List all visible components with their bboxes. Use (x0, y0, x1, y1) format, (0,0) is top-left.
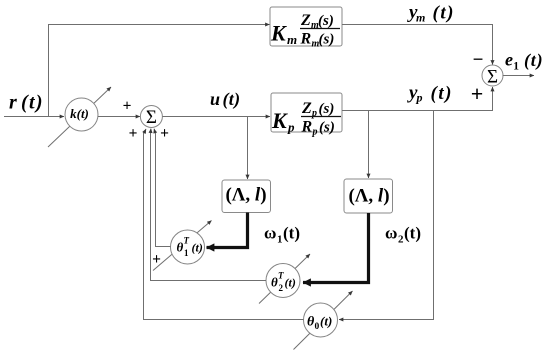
svg-text:(s): (s) (318, 13, 334, 29)
svg-text:(Λ, l): (Λ, l) (225, 185, 266, 206)
svg-text:(t): (t) (223, 89, 241, 110)
wire: u branch down to filter 1 (247, 117, 249, 180)
svg-text:Z: Z (300, 12, 311, 29)
svg-text:R: R (301, 119, 313, 136)
svg-text:(s): (s) (319, 120, 335, 136)
gain block k(t) (65, 98, 98, 131)
thick wire: omega2 from filter2 to theta2 (303, 213, 369, 283)
svg-text:(t): (t) (404, 224, 421, 243)
svg-text:(t): (t) (285, 276, 296, 290)
svg-text:Σ: Σ (146, 107, 157, 128)
svg-text:−: − (473, 50, 484, 71)
wire: top line to Km (48, 24, 270, 26)
svg-text:0: 0 (315, 322, 320, 332)
svg-text:+: + (129, 125, 138, 142)
node A: branch on r line going up (48, 24, 50, 117)
svg-text:R: R (300, 31, 312, 48)
svg-text:+: + (123, 98, 132, 115)
svg-text:+: + (160, 125, 169, 142)
svg-text:(t): (t) (21, 92, 44, 114)
block Kp plant (271, 93, 342, 138)
svg-text:T: T (184, 236, 190, 246)
svg-text:e: e (505, 50, 513, 70)
svg-text:(s): (s) (319, 32, 335, 48)
svg-text:p: p (287, 120, 295, 135)
svg-text:θ: θ (177, 240, 184, 255)
svg-text:r: r (9, 92, 17, 114)
svg-text:Z: Z (301, 100, 312, 117)
svg-text:1: 1 (513, 61, 519, 73)
wire: yp branch down to theta0 (339, 111, 434, 320)
summing junction S2 (e1) (482, 65, 503, 86)
svg-text:K: K (270, 21, 287, 46)
svg-text:2: 2 (279, 283, 284, 293)
wire: theta2 output to summer (151, 132, 267, 281)
svg-text:(t): (t) (524, 50, 543, 71)
theta2 gain diagonal arrow (259, 254, 310, 304)
gain block theta0(t) (304, 303, 338, 337)
wire: r(t) input to k(t) (4, 116, 64, 118)
filter block 1 (Lambda, l) (222, 180, 271, 213)
block Km reference model (270, 7, 342, 50)
theta0 gain diagonal arrow (294, 291, 353, 350)
wire: Km output to e summer (ym) (342, 25, 493, 65)
gain k(t) diagonal arrow (48, 87, 111, 147)
wire: yp branch down to filter 2 (368, 111, 370, 179)
svg-text:1: 1 (184, 248, 189, 258)
svg-text:u: u (210, 89, 220, 109)
svg-text:+: + (152, 251, 161, 268)
svg-text:ω: ω (385, 224, 397, 243)
svg-text:m: m (287, 32, 297, 47)
svg-text:T: T (278, 271, 284, 281)
svg-text:(s): (s) (319, 101, 335, 117)
svg-text:ω: ω (264, 224, 276, 243)
svg-text:p: p (311, 108, 317, 119)
gain block theta1T(t) (171, 230, 205, 264)
filter block 2 (Lambda, l) (344, 179, 393, 213)
svg-text:(t): (t) (320, 314, 332, 329)
svg-text:m: m (416, 11, 425, 25)
svg-text:p: p (312, 127, 318, 138)
svg-text:1: 1 (277, 234, 283, 246)
svg-text:(t): (t) (283, 224, 300, 243)
wire: k(t) to summer (98, 116, 140, 118)
svg-text:p: p (416, 91, 423, 105)
wire: summer to Kp plant (163, 116, 271, 118)
wire: e1 output (503, 75, 535, 77)
summing junction S1 (140, 106, 162, 128)
wire: Kp output yp to e summer (342, 87, 493, 111)
svg-text:K: K (271, 108, 288, 133)
svg-text:θ: θ (271, 275, 278, 290)
svg-text:(t): (t) (433, 3, 455, 24)
svg-text:k(t): k(t) (70, 106, 89, 121)
svg-text:+: + (471, 81, 484, 106)
svg-text:Σ: Σ (487, 67, 498, 88)
svg-text:(t): (t) (192, 241, 203, 255)
theta1 gain diagonal arrow (153, 221, 212, 271)
svg-text:(t): (t) (431, 83, 453, 104)
wire: theta1 output to summer (156, 132, 171, 247)
svg-text:(Λ, l): (Λ, l) (348, 186, 389, 207)
wire: theta0 output to summer (144, 132, 304, 320)
gain block theta2T(t) (266, 264, 300, 298)
thick wire: omega1 from filter1 to theta1 (207, 213, 248, 248)
